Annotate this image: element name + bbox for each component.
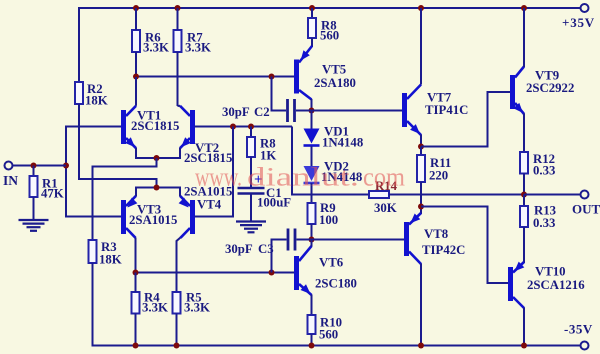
svg-text:com: com bbox=[363, 163, 405, 193]
svg-text:VT5: VT5 bbox=[322, 63, 346, 77]
resistor R9 bbox=[308, 203, 316, 224]
svg-text:47K: 47K bbox=[41, 187, 64, 201]
node C3 tap bbox=[269, 270, 275, 276]
resistor R8 1K bbox=[250, 127, 252, 138]
svg-text:2SCA1216: 2SCA1216 bbox=[527, 278, 585, 292]
svg-text:C2: C2 bbox=[254, 105, 270, 119]
svg-text:OUT: OUT bbox=[572, 202, 600, 217]
node C2 tap bbox=[269, 74, 275, 80]
resistor R6 bbox=[132, 30, 140, 52]
svg-text:3.3K: 3.3K bbox=[142, 301, 168, 315]
node R8 1K tap bbox=[248, 124, 254, 130]
node NPN emitters bbox=[154, 155, 160, 161]
wire R10 to bottom rail bbox=[311, 334, 313, 346]
wire VT1-collector node to VT5 base bbox=[135, 76, 294, 78]
resistor R1 bbox=[33, 166, 35, 177]
svg-text:TIP41C: TIP41C bbox=[425, 103, 468, 117]
wire R13 to VT10 bbox=[523, 227, 525, 263]
wire R3 to bottom rail bbox=[93, 263, 136, 346]
node R1 tap bbox=[31, 163, 37, 169]
resistor R10 bbox=[308, 315, 316, 334]
wire VT10 to bottom rail bbox=[523, 308, 525, 346]
svg-text:1K: 1K bbox=[260, 149, 276, 163]
svg-text:2SC2922: 2SC2922 bbox=[526, 81, 574, 95]
wire VD2 to R9 bbox=[311, 183, 313, 203]
svg-text:220: 220 bbox=[429, 169, 448, 183]
wire C3 tap bbox=[272, 240, 287, 273]
svg-text:VT10: VT10 bbox=[535, 265, 566, 279]
wire R2 drop from rail bbox=[78, 7, 80, 82]
wire VT2 emitter bbox=[157, 148, 181, 158]
svg-text:18K: 18K bbox=[85, 94, 108, 108]
diode VD2 1N4148 bbox=[304, 166, 320, 181]
svg-text:0.33: 0.33 bbox=[533, 216, 555, 230]
wire VAS upper to VT7 base bbox=[312, 110, 403, 112]
node VT8 emitter tap bbox=[418, 204, 424, 210]
node VT1 collector bbox=[133, 74, 139, 80]
node VT3 collector R4 bbox=[133, 270, 139, 276]
wire to VT9 base bbox=[421, 92, 510, 147]
resistor R2 bbox=[75, 82, 83, 104]
wire input node vertical bbox=[66, 127, 121, 217]
svg-text:IN: IN bbox=[3, 173, 18, 188]
wire C2 to VAS node bbox=[296, 110, 312, 112]
wire VT8 collector to bottom rail bbox=[420, 264, 422, 346]
resistor R3 bbox=[89, 240, 97, 263]
wire VT1 collector bbox=[135, 77, 137, 106]
resistor R7 bbox=[174, 30, 182, 52]
resistor R11 bbox=[420, 147, 422, 156]
svg-text:2SC1815: 2SC1815 bbox=[131, 119, 179, 133]
svg-text:VT6: VT6 bbox=[319, 256, 344, 270]
wire +35V top rail bbox=[79, 7, 581, 9]
wire VT9 collector to rail bbox=[523, 8, 525, 67]
wire VAS lower to VT8 base bbox=[312, 239, 405, 241]
transistor VT9 2SC2922 bbox=[510, 75, 515, 109]
resistor R5 bbox=[173, 292, 181, 314]
-35V terminal bbox=[581, 342, 589, 350]
wire C3 to VAS lower node bbox=[297, 239, 312, 241]
wire R8 to C1 bbox=[250, 157, 252, 187]
transistor VT5 2SA180 bbox=[294, 60, 299, 94]
transistor VT10 2SCA1216 bbox=[508, 267, 513, 301]
node OUT bbox=[521, 192, 527, 198]
wire R5 to bottom rail bbox=[176, 314, 178, 346]
node VAS lower bbox=[309, 237, 315, 243]
wire VT2 base tie bbox=[195, 126, 293, 128]
svg-text:+35V: +35V bbox=[562, 15, 595, 30]
wire R8 to VT5 emitter bbox=[311, 38, 313, 47]
wire VT1 emitter bbox=[136, 148, 157, 158]
wire IN to node bbox=[13, 165, 67, 167]
wire R4 to bottom rail bbox=[135, 314, 137, 346]
wire VT2 collector bbox=[178, 105, 181, 107]
wire VT3 emitter bbox=[136, 188, 157, 197]
svg-text:560: 560 bbox=[320, 29, 339, 43]
svg-text:VT4: VT4 bbox=[197, 198, 222, 212]
node PNP emitters bbox=[154, 185, 160, 191]
ground under R1 bbox=[19, 219, 49, 221]
wire VT7 collector to rail bbox=[420, 8, 422, 85]
wire VT9 emitter to R12 bbox=[523, 114, 525, 153]
resistor R12 bbox=[520, 152, 528, 174]
svg-text:560: 560 bbox=[319, 328, 338, 342]
wire to OUT terminal bbox=[524, 194, 581, 196]
+35V terminal bbox=[581, 4, 589, 12]
OUT terminal bbox=[581, 191, 589, 199]
transistor VT1 2SC1815 bbox=[121, 110, 126, 144]
wire R2 to PNP emitters bbox=[79, 104, 157, 188]
node base tie down bbox=[230, 124, 236, 130]
svg-text:100uF: 100uF bbox=[257, 196, 291, 210]
wire base tie vertical bbox=[195, 127, 234, 217]
svg-text:VT8: VT8 bbox=[424, 227, 448, 241]
wire C1 to ground bbox=[250, 194, 252, 222]
resistor R4 bbox=[132, 292, 140, 314]
svg-text:30K: 30K bbox=[374, 201, 397, 215]
wire VD1 to VD2 bbox=[311, 146, 313, 166]
wire VT5 collector to VAS node bbox=[311, 99, 313, 111]
transistor VT4 2SA1015 bbox=[190, 200, 195, 234]
svg-text:2SA1015: 2SA1015 bbox=[129, 213, 177, 227]
node bottom rail junctions bbox=[133, 343, 139, 349]
IN terminal bbox=[5, 162, 13, 170]
wire VT7 emitter bbox=[420, 135, 422, 147]
node top rail junctions bbox=[133, 5, 139, 11]
wire R6 to VT1 collector node bbox=[135, 52, 137, 78]
wire feedback to bases bbox=[292, 127, 312, 195]
node VAS upper bbox=[309, 108, 315, 114]
wire -35V bottom rail bbox=[93, 345, 582, 347]
wire VT4 base node to VT6 base bbox=[135, 272, 295, 274]
svg-text:100: 100 bbox=[319, 213, 338, 227]
svg-text:-35V: -35V bbox=[564, 322, 593, 337]
svg-text:30pF: 30pF bbox=[225, 242, 253, 256]
transistor VT8 TIP42C bbox=[404, 222, 409, 256]
diode VD1 1N4148 bbox=[311, 111, 313, 129]
wire VT4 emitter bbox=[157, 188, 181, 197]
wire C2 tap bbox=[272, 77, 287, 111]
svg-text:30pF: 30pF bbox=[222, 105, 250, 119]
svg-text:2SC180: 2SC180 bbox=[315, 277, 357, 291]
wire NPN emitters to R3 bbox=[93, 158, 157, 240]
svg-text:TIP42C: TIP42C bbox=[422, 243, 465, 257]
transistor VT3 2SA1015 bbox=[121, 200, 126, 234]
svg-text:www.: www. bbox=[195, 163, 242, 193]
svg-text:2SA180: 2SA180 bbox=[314, 76, 356, 90]
svg-text:3.3K: 3.3K bbox=[184, 301, 210, 315]
node input bbox=[63, 163, 69, 169]
svg-text:3.3K: 3.3K bbox=[185, 41, 211, 55]
svg-text:3.3K: 3.3K bbox=[143, 41, 169, 55]
wire VT6 emitter to R10 bbox=[311, 295, 313, 316]
svg-text:1N4148: 1N4148 bbox=[322, 136, 363, 150]
wire R7 to VT2 collector bbox=[177, 52, 179, 106]
node VT7 emitter bbox=[418, 144, 424, 150]
resistor R14 30K feedback bbox=[312, 194, 370, 196]
transistor VT2 2SC1815 bbox=[190, 110, 195, 144]
wire R9 to VAS lower node bbox=[311, 224, 313, 240]
svg-text:0.33: 0.33 bbox=[533, 164, 555, 178]
svg-text:dianlut.: dianlut. bbox=[247, 163, 359, 193]
wire VT6 collector bbox=[311, 240, 313, 247]
watermark www.dianlut.com bbox=[195, 163, 405, 193]
transistor VT6 2SC180 bbox=[294, 256, 299, 290]
svg-text:18K: 18K bbox=[99, 253, 122, 267]
wire R1 to ground bbox=[33, 197, 35, 220]
resistor R8 560 bbox=[311, 8, 313, 18]
wire VT3 collector to VT6 base wire bbox=[135, 238, 137, 274]
wire R12 to OUT node bbox=[523, 174, 525, 195]
ground under C1 bbox=[236, 220, 266, 222]
resistor R13 bbox=[523, 195, 525, 207]
wire to VT10 base bbox=[421, 207, 508, 284]
wire VT4 collector to R5 bbox=[177, 238, 181, 293]
wire R11 to VT8 emitter bbox=[420, 182, 422, 214]
transistor VT7 TIP41C bbox=[402, 93, 407, 127]
